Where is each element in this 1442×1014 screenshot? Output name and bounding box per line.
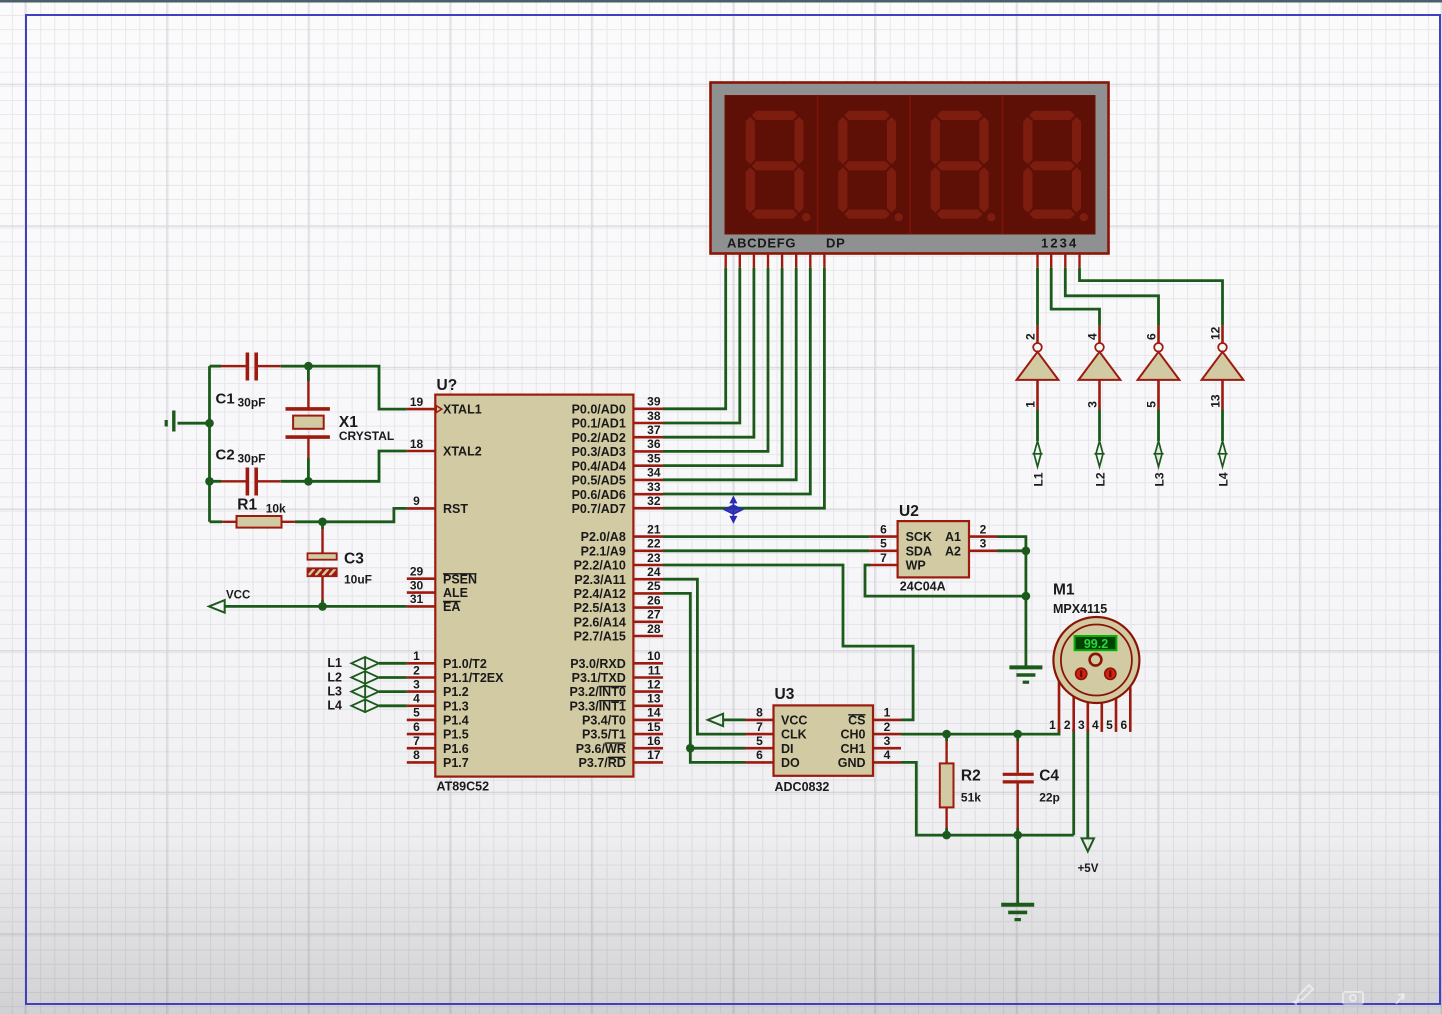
svg-text:L1: L1 (327, 656, 342, 670)
wire P2.0 to U2 SCK (663, 535, 869, 538)
svg-text:16: 16 (647, 734, 661, 748)
svg-text:P2.1/A9: P2.1/A9 (581, 544, 626, 558)
svg-text:MPX4115: MPX4115 (1053, 602, 1107, 616)
svg-text:13: 13 (647, 692, 661, 706)
svg-text:C3: C3 (344, 551, 364, 568)
eeprom U2 24C04A (869, 503, 997, 594)
svg-text:U3: U3 (775, 686, 795, 703)
svg-text:4: 4 (884, 748, 891, 762)
svg-text:P1.5: P1.5 (443, 728, 469, 742)
wire X1 bottom to C2 row (307, 458, 310, 481)
svg-text:6: 6 (756, 748, 763, 762)
svg-text:P3.0/RXD: P3.0/RXD (570, 657, 626, 671)
4-digit 7-segment display module (711, 83, 1109, 268)
svg-text:P1.3: P1.3 (443, 699, 469, 713)
resistor R1 10k (222, 497, 295, 528)
wire VCC terminal to U3 pin 8 (723, 719, 745, 722)
svg-text:P0.0/AD0: P0.0/AD0 (572, 402, 626, 416)
terminal L4 (input to P1.3) (327, 699, 378, 713)
terminal L3 (inverter output) (1153, 441, 1167, 487)
adc U3 ADC0832 (746, 686, 902, 794)
inverter U4:D (digit driver 4) (1202, 326, 1244, 410)
node junction rail/C4 (1013, 831, 1022, 840)
node junction C3/VCC/EA (318, 602, 327, 611)
svg-text:31: 31 (410, 592, 424, 606)
svg-text:P0.6/AD6: P0.6/AD6 (572, 488, 626, 502)
svg-text:P1.1/T2EX: P1.1/T2EX (443, 671, 504, 685)
sheet origin marker (724, 497, 742, 522)
node junction WP rail (1022, 592, 1031, 601)
node junction rail/R2 (942, 831, 951, 840)
wire L1 to chip (379, 662, 407, 665)
power terminal +5V (1078, 838, 1099, 875)
svg-text:39: 39 (647, 395, 661, 409)
svg-text:33: 33 (647, 480, 661, 494)
svg-text:CLK: CLK (781, 728, 807, 742)
svg-text:P2.6/A14: P2.6/A14 (574, 615, 626, 629)
svg-text:30pF: 30pF (238, 396, 266, 410)
terminal L1 (inverter output) (1032, 441, 1046, 487)
terminal L2 (input to P1.1) (327, 670, 378, 684)
svg-text:XTAL2: XTAL2 (443, 445, 482, 459)
crystal X1 (286, 366, 395, 458)
svg-text:51k: 51k (961, 791, 981, 805)
wire inverter 2 output to terminal L2 (1098, 410, 1101, 442)
svg-text:CS: CS (848, 714, 865, 728)
svg-text:1234: 1234 (1041, 235, 1078, 250)
node junction A1/A2 (1022, 547, 1031, 556)
svg-text:+5V: +5V (1078, 863, 1099, 875)
svg-text:P0.4/AD4: P0.4/AD4 (572, 459, 626, 473)
svg-text:3: 3 (980, 537, 987, 551)
svg-text:37: 37 (647, 423, 661, 437)
svg-text:P0.7/AD7: P0.7/AD7 (572, 502, 626, 516)
svg-text:8: 8 (413, 748, 420, 762)
ground symbol (analog rail) (1001, 905, 1034, 920)
svg-text:2: 2 (1064, 718, 1071, 732)
inverter U4:A (digit driver 1) (1017, 326, 1059, 410)
wire R1 to RST pin 9 (295, 508, 407, 521)
wire P0.4 to display segment E (663, 268, 782, 466)
capacitor C1 30pF (216, 353, 281, 410)
svg-text:23: 23 (647, 551, 661, 565)
node junction C2/left rail (205, 477, 214, 486)
svg-text:L4: L4 (327, 699, 342, 713)
svg-text:8: 8 (756, 706, 763, 720)
svg-text:CH1: CH1 (840, 742, 865, 756)
svg-text:DO: DO (781, 756, 800, 770)
wire P0.0 to display segment A (663, 268, 726, 409)
svg-text:7: 7 (413, 734, 420, 748)
wire P2.2 to U3 CS (663, 565, 913, 720)
svg-text:P2.3/A11: P2.3/A11 (574, 573, 625, 587)
capacitor C4 22p (1003, 734, 1060, 835)
wire inverter 4 output to terminal L4 (1221, 410, 1224, 442)
svg-text:11: 11 (648, 663, 661, 677)
svg-text:2: 2 (1024, 333, 1038, 340)
svg-text:38: 38 (647, 409, 661, 423)
svg-text:P3.7/RD: P3.7/RD (579, 756, 626, 770)
svg-text:L4: L4 (1217, 472, 1231, 486)
svg-text:WP: WP (906, 559, 926, 573)
wire sensor pin2 to rail (1072, 729, 1075, 835)
node junction DI/DO tie (686, 744, 695, 753)
capacitor C2 30pF (216, 446, 281, 495)
svg-text:C2: C2 (216, 446, 235, 463)
svg-text:P0.3/AD3: P0.3/AD3 (572, 445, 626, 459)
svg-text:4: 4 (1092, 718, 1099, 732)
svg-text:3: 3 (1086, 401, 1100, 408)
svg-text:P1.2: P1.2 (443, 685, 469, 699)
svg-text:L2: L2 (1094, 472, 1108, 486)
node junction CH0/C4 (1013, 730, 1022, 739)
svg-text:29: 29 (410, 565, 424, 579)
power terminal (U3 VCC) (708, 714, 723, 726)
wire P0.5 to display segment F (663, 268, 796, 480)
svg-text:XTAL1: XTAL1 (443, 403, 482, 417)
svg-text:5: 5 (1106, 718, 1113, 732)
svg-text:5: 5 (756, 734, 763, 748)
wire sensor pin3 to +5V (1086, 729, 1089, 838)
svg-text:19: 19 (410, 395, 424, 409)
svg-text:P3.4/T0: P3.4/T0 (582, 714, 626, 728)
svg-text:3: 3 (884, 734, 891, 748)
capacitor C3 10uF electrolytic (308, 522, 373, 600)
svg-text:12: 12 (647, 677, 661, 691)
wire P0.6 to display segment G (663, 268, 810, 494)
svg-text:P3.1/TXD: P3.1/TXD (572, 671, 626, 685)
svg-text:L1: L1 (1032, 472, 1046, 486)
svg-text:5: 5 (880, 537, 887, 551)
wire U3 CH0 to sensor pin1 (901, 729, 1059, 734)
pressure sensor M1 MPX4115 (1049, 581, 1139, 732)
top window edge band (0, 0, 1442, 3)
svg-text:3: 3 (413, 677, 420, 691)
svg-text:DP: DP (826, 235, 845, 250)
svg-text:5: 5 (1145, 401, 1159, 408)
svg-text:CH0: CH0 (840, 728, 865, 742)
svg-text:26: 26 (647, 593, 661, 607)
svg-text:15: 15 (647, 720, 661, 734)
power terminal VCC (209, 590, 250, 613)
svg-text:2: 2 (884, 720, 891, 734)
svg-text:CRYSTAL: CRYSTAL (339, 429, 394, 443)
svg-text:DI: DI (781, 742, 794, 756)
svg-text:SCK: SCK (906, 530, 932, 544)
svg-text:P2.2/A10: P2.2/A10 (574, 559, 626, 573)
svg-text:30: 30 (410, 578, 424, 592)
terminal L4 (inverter output) (1217, 441, 1231, 487)
wire P2.3 to U3 CLK (663, 579, 746, 734)
inverter U4:B (digit driver 2) (1079, 326, 1121, 410)
svg-text:U?: U? (437, 377, 458, 394)
svg-text:28: 28 (647, 622, 661, 636)
node junction R1/C3/RST (318, 518, 327, 527)
wire XTAL1 net: C1 to chip pin 19 (210, 365, 222, 368)
svg-text:AT89C52: AT89C52 (437, 780, 490, 794)
svg-text:10uF: 10uF (344, 573, 372, 587)
svg-text:25: 25 (647, 579, 661, 593)
wire left rail to R1 (210, 520, 223, 523)
svg-text:35: 35 (647, 452, 661, 466)
svg-text:M1: M1 (1053, 581, 1075, 598)
svg-text:R1: R1 (237, 497, 257, 514)
svg-text:7: 7 (756, 720, 763, 734)
svg-text:4: 4 (413, 692, 420, 706)
wire P0.2 to display segment C (663, 268, 754, 437)
wire L2 to chip (379, 676, 407, 679)
svg-text:C1: C1 (216, 391, 235, 408)
svg-text:P0.1/AD1: P0.1/AD1 (572, 417, 626, 431)
svg-text:A1: A1 (945, 530, 961, 544)
node junction ground tap (205, 419, 214, 428)
svg-text:27: 27 (647, 608, 661, 622)
svg-text:1: 1 (413, 649, 420, 663)
wire inverter 1 output to terminal L1 (1036, 410, 1039, 442)
svg-text:L3: L3 (327, 684, 342, 698)
wire U3 GND to bottom rail (901, 762, 1074, 835)
svg-text:ALE: ALE (443, 586, 468, 600)
wire P2.1 to U2 SDA (663, 549, 869, 552)
svg-text:7: 7 (880, 551, 887, 565)
svg-text:24: 24 (647, 565, 661, 579)
ground terminal (crystal net) (166, 411, 209, 432)
svg-text:L3: L3 (1153, 472, 1167, 486)
svg-text:A2: A2 (945, 544, 961, 558)
svg-text:10k: 10k (266, 502, 286, 516)
terminal L1 (input to P1.0) (327, 656, 378, 670)
svg-text:P2.5/A13: P2.5/A13 (574, 601, 626, 615)
wire C3 to VCC rail (321, 600, 324, 606)
svg-text:3: 3 (1078, 718, 1085, 732)
svg-text:30pF: 30pF (238, 451, 266, 465)
inverter U4:C (digit driver 3) (1138, 326, 1180, 410)
wire P0.3 to display segment D (663, 268, 768, 452)
svg-text:13: 13 (1209, 394, 1223, 408)
wire display pin 4 to inverter 4 (1080, 268, 1223, 326)
svg-text:1: 1 (884, 706, 891, 720)
svg-text:32: 32 (647, 494, 661, 508)
wire P2.4 to U3 DI/DO (663, 593, 746, 762)
svg-text:17: 17 (647, 748, 661, 762)
ground symbol (U2 net) (1009, 667, 1042, 682)
node junction CH0/R2 (942, 730, 951, 739)
wire display pin 2 to inverter 2 (1051, 268, 1099, 326)
svg-text:VCC: VCC (781, 714, 807, 728)
node junction C2/X1 bottom (304, 477, 313, 486)
svg-text:18: 18 (410, 437, 424, 451)
svg-text:P1.0/T2: P1.0/T2 (443, 657, 487, 671)
terminal L3 (input to P1.2) (327, 684, 378, 698)
wire P0.7 to display segment DP (663, 268, 824, 508)
microcontroller U? AT89C52 (407, 377, 663, 794)
resistor R2 51k (940, 734, 981, 835)
svg-text:RST: RST (443, 502, 468, 516)
svg-text:P0.2/AD2: P0.2/AD2 (572, 431, 626, 445)
wire rail to ground (1016, 835, 1019, 903)
svg-text:2: 2 (980, 522, 987, 536)
wire L3 to chip (379, 690, 407, 693)
svg-text:P2.7/A15: P2.7/A15 (574, 630, 626, 644)
svg-text:ABCDEFG: ABCDEFG (727, 235, 796, 250)
svg-text:34: 34 (647, 466, 661, 480)
wire L4 to chip (379, 704, 407, 707)
svg-text:4: 4 (1086, 333, 1100, 340)
wire left vertical rail C1-C2-R1 (208, 366, 211, 522)
svg-text:22: 22 (647, 537, 661, 551)
svg-text:36: 36 (647, 437, 661, 451)
wire U2 WP to ground rail (865, 565, 1026, 596)
svg-text:P0.5/AD5: P0.5/AD5 (572, 474, 626, 488)
svg-text:6: 6 (1145, 333, 1159, 340)
svg-text:6: 6 (413, 720, 420, 734)
svg-text:L2: L2 (327, 670, 342, 684)
wire VCC rail to EA pin 31 (225, 605, 407, 608)
svg-text:24C04A: 24C04A (900, 580, 946, 594)
node junction C1/X1 top (304, 362, 313, 371)
svg-text:P3.2/INT0: P3.2/INT0 (570, 685, 626, 699)
svg-text:P1.6: P1.6 (443, 742, 469, 756)
wire display pin 1 to inverter 1 (1036, 268, 1039, 326)
decorative faint overlay icons (1294, 985, 1404, 1004)
svg-text:P1.4: P1.4 (443, 714, 469, 728)
svg-text:U2: U2 (899, 503, 919, 520)
wire C2 to XTAL2 pin 18 (210, 480, 222, 483)
wire inverter 3 output to terminal L3 (1157, 410, 1160, 442)
svg-text:6: 6 (1120, 718, 1127, 732)
svg-text:VCC: VCC (226, 590, 250, 602)
svg-text:5: 5 (413, 706, 420, 720)
svg-text:1: 1 (1024, 401, 1038, 408)
svg-text:P1.7: P1.7 (443, 756, 469, 770)
svg-text:GND: GND (838, 756, 866, 770)
svg-text:10: 10 (647, 649, 661, 663)
svg-text:P3.6/WR: P3.6/WR (576, 742, 626, 756)
svg-text:1: 1 (1049, 718, 1056, 732)
svg-text:P3.3/INT1: P3.3/INT1 (570, 699, 626, 713)
svg-text:6: 6 (880, 522, 887, 536)
wire display pin 3 to inverter 3 (1065, 268, 1158, 326)
svg-text:12: 12 (1209, 326, 1223, 340)
svg-text:P2.0/A8: P2.0/A8 (581, 530, 626, 544)
svg-text:ADC0832: ADC0832 (775, 780, 830, 794)
svg-text:2: 2 (413, 663, 420, 677)
svg-text:P2.4/A12: P2.4/A12 (574, 587, 626, 601)
svg-text:9: 9 (413, 494, 420, 508)
wire U2 A1/A2 to ground (997, 537, 1026, 667)
terminal L2 (inverter output) (1094, 441, 1108, 487)
svg-text:C4: C4 (1039, 768, 1059, 785)
svg-text:P3.5/T1: P3.5/T1 (582, 728, 626, 742)
svg-text:R2: R2 (961, 768, 981, 785)
svg-text:21: 21 (647, 522, 661, 536)
wire P0.1 to display segment B (663, 268, 740, 423)
svg-text:22p: 22p (1039, 791, 1060, 805)
svg-text:14: 14 (647, 706, 661, 720)
svg-text:99.2: 99.2 (1084, 637, 1108, 651)
svg-text:SDA: SDA (906, 544, 932, 558)
